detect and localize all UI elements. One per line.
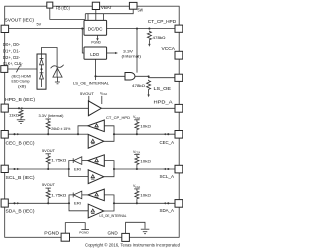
- wire gate output: [135, 76, 175, 77]
- resistor SCL B pull-up: [46, 155, 50, 164]
- resistor 478k pull-down: [147, 80, 151, 90]
- svg-text:10kΩ: 10kΩ: [140, 125, 151, 129]
- svg-text:PGND: PGND: [91, 41, 101, 45]
- svg-text:LDO: LDO: [90, 52, 99, 57]
- pin SDA_A: [175, 200, 183, 208]
- node junction gate supply: [136, 28, 138, 30]
- node dot CEC A: [167, 133, 169, 135]
- wire HPD output: [101, 107, 175, 109]
- wire DC/DC PGND stub: [97, 35, 99, 38]
- node junction HPD pulldown: [18, 107, 20, 109]
- node dot SDA B: [13, 202, 15, 204]
- svg-text:CT_CP_HPD: CT_CP_HPD: [106, 116, 130, 120]
- pin FB (IEC): [47, 2, 53, 8]
- node hysteresis CEC upper: [95, 124, 98, 127]
- wire CEC A line: [114, 133, 175, 135]
- node junction LS_OE: [148, 75, 150, 77]
- node arrow SDA A: [163, 202, 166, 204]
- wire SDA A upper: [104, 195, 114, 203]
- wire SDA up branch: [69, 195, 73, 203]
- node dot SCL A: [167, 168, 169, 170]
- wire CEC into lower: [78, 133, 88, 135]
- svg-text:CCA: CCA: [135, 152, 140, 155]
- diode ERI SCL: [72, 158, 74, 163]
- resistor 11k pulldown: [19, 109, 23, 118]
- gate LS_OE: [125, 73, 135, 81]
- resistor 478k pull-up: [147, 31, 151, 41]
- node junction SDA A: [113, 202, 115, 204]
- op-amp SDA B-to-A: [88, 204, 104, 218]
- node junction 10k SCL: [136, 168, 138, 170]
- svg-text:ERI: ERI: [74, 167, 81, 171]
- node junction 478k: [148, 28, 150, 30]
- node junction 10k CEC: [136, 133, 138, 135]
- ground GND: [141, 228, 150, 230]
- wire VBAT to DC/DC: [95, 10, 97, 21]
- node clamp center junction: [40, 68, 42, 70]
- svg-text:10kΩ: 10kΩ: [140, 194, 151, 198]
- wire HPD_B line: [8, 107, 88, 109]
- svg-text:LS_OE_INTERNAL: LS_OE_INTERNAL: [73, 82, 109, 86]
- svg-text:HPD_B (IEC): HPD_B (IEC): [5, 97, 35, 102]
- svg-text:11kΩ: 11kΩ: [9, 113, 19, 117]
- node dot CEC B: [13, 133, 15, 135]
- node hysteresis SCL lower: [91, 175, 94, 178]
- svg-text:VCCA: VCCA: [162, 46, 176, 51]
- svg-text:D2+, D2-: D2+, D2-: [3, 55, 20, 60]
- wire 5V rail left: [9, 28, 84, 30]
- svg-text:GND: GND: [108, 230, 119, 235]
- svg-text:5VOUT: 5VOUT: [42, 183, 56, 187]
- svg-text:CCA: CCA: [135, 186, 140, 189]
- svg-text:10kΩ: 10kΩ: [140, 159, 151, 163]
- op-amp SCL B-to-A: [88, 170, 104, 184]
- svg-text:LS_OE_INTERNAL: LS_OE_INTERNAL: [100, 214, 127, 218]
- wire TMDS bus: [8, 68, 37, 70]
- node junction SCL A: [113, 168, 115, 170]
- wire SDA A lower: [104, 203, 114, 211]
- wire drop2 into DC/DC: [103, 14, 105, 21]
- svg-text:CT_CP_HPD: CT_CP_HPD: [148, 19, 177, 24]
- node arrow CEC A: [163, 133, 166, 135]
- svg-text:CEC_B (IEC): CEC_B (IEC): [6, 141, 35, 146]
- op-amp HPD buffer: [88, 101, 101, 116]
- svg-text:CEC_A: CEC_A: [160, 140, 175, 145]
- wire CEC A lower: [104, 134, 114, 141]
- svg-text:DC/DC: DC/DC: [88, 27, 103, 32]
- svg-text:HPD_A: HPD_A: [154, 100, 174, 105]
- pin SDA_B (IEC): [1, 199, 8, 207]
- wire CEC B line: [8, 133, 78, 135]
- node dot SDA A: [167, 202, 169, 204]
- svg-text:1.75kΩ: 1.75kΩ: [51, 193, 67, 197]
- op-amp SDA A-to-B: [88, 189, 104, 201]
- node hysteresis SCL upper: [95, 159, 98, 162]
- resistor 10k SDA: [135, 190, 139, 199]
- ground PGND: [81, 229, 89, 231]
- svg-text:FB (IEC): FB (IEC): [56, 6, 70, 11]
- node hysteresis SDA lower: [91, 209, 94, 212]
- block DC/DC: [84, 20, 107, 35]
- wire 5V rail right: [107, 28, 175, 30]
- diode ERI SDA: [72, 193, 74, 198]
- svg-text:D0+, D0-: D0+, D0-: [3, 42, 20, 47]
- svg-text:3.3V (Internal): 3.3V (Internal): [39, 114, 64, 118]
- wire SCL into lower: [69, 169, 88, 177]
- block LDO: [84, 47, 107, 59]
- wire LDO to gate: [96, 59, 126, 76]
- svg-text:PGND: PGND: [79, 231, 88, 235]
- resistor CEC B pull-up: [46, 120, 50, 129]
- resistor 10k CEC: [135, 121, 139, 130]
- wire PGND to ground: [65, 223, 85, 234]
- wire clamp top to TVS: [42, 48, 58, 67]
- wire LDO output arrow: [107, 52, 116, 54]
- node junction CEC pull-up: [47, 133, 49, 135]
- svg-text:Copyright © 2016, Texas Instru: Copyright © 2016, Texas Instruments Inco…: [85, 243, 181, 248]
- pin SW: [129, 2, 137, 9]
- wire SCL A line: [114, 168, 175, 170]
- node arrow SCL B: [17, 168, 20, 170]
- border frame: [5, 6, 180, 237]
- svg-text:8: 8: [20, 64, 22, 68]
- resistor 10k SCL: [135, 156, 139, 165]
- svg-text:1.75kΩ: 1.75kΩ: [51, 158, 67, 162]
- node junction SCL split: [68, 168, 70, 170]
- wire SDA B line: [8, 202, 69, 204]
- diode clamp upper: [41, 54, 43, 59]
- node hysteresis SDA upper: [95, 193, 98, 196]
- wire SDA A line: [114, 202, 175, 204]
- svg-text:SDA_B (IEC): SDA_B (IEC): [6, 209, 35, 214]
- svg-text:SCL_B (IEC): SCL_B (IEC): [6, 175, 35, 180]
- pin CEC_A: [175, 131, 183, 139]
- ground HPD pulldown: [20, 118, 22, 120]
- svg-text:5VOUT (IEC): 5VOUT (IEC): [5, 17, 34, 22]
- wire GND to ground: [126, 222, 145, 233]
- wire SDA into lower: [69, 203, 88, 211]
- node junction 10k SDA: [136, 202, 138, 204]
- node arrow HPD: [21, 107, 24, 109]
- pin TMDS: [1, 66, 8, 73]
- wire SCL up branch: [69, 161, 73, 169]
- node arrow CEC B: [17, 133, 20, 135]
- svg-text:CCA: CCA: [135, 117, 140, 120]
- diode clamp lower: [40, 72, 44, 74]
- block ESD clamp array: [37, 54, 46, 89]
- pin SCL_A: [175, 165, 183, 173]
- svg-text:(x8): (x8): [18, 84, 26, 88]
- svg-text:478kΩ: 478kΩ: [132, 84, 145, 88]
- node junction CEC A: [113, 133, 115, 135]
- node junction LDO tap: [81, 28, 83, 30]
- pin VBAT: [92, 2, 99, 9]
- node bus slash: [16, 66, 19, 72]
- node junction SDA split: [68, 202, 70, 204]
- op-amp CEC B-to-A: [88, 134, 104, 148]
- node junction SDA pull-up: [47, 202, 49, 204]
- pin LS_OE: [175, 74, 183, 81]
- svg-text:5VOUT: 5VOUT: [80, 92, 95, 96]
- svg-text:26kΩ ± 15%: 26kΩ ± 15%: [51, 127, 70, 131]
- wire 5V to gate top: [136, 29, 138, 73]
- svg-text:SDA_A: SDA_A: [160, 208, 175, 213]
- node arrow SCL A: [163, 168, 166, 170]
- wire drop1 into DC/DC: [87, 14, 89, 21]
- svg-text:VBAT: VBAT: [101, 5, 112, 10]
- op-amp SCL A-to-B: [88, 155, 104, 167]
- wire SCL B line: [8, 168, 69, 170]
- svg-text:478kΩ: 478kΩ: [153, 36, 166, 40]
- wire SCL A upper: [104, 161, 114, 169]
- svg-text:CCA: CCA: [102, 93, 107, 96]
- wire SW to DC/DC: [85, 9, 133, 14]
- svg-text:3.3V: 3.3V: [123, 49, 134, 53]
- svg-text:LS_OE: LS_OE: [154, 86, 172, 91]
- svg-text:5VOUT: 5VOUT: [42, 149, 56, 153]
- node hysteresis CEC lower: [91, 139, 94, 142]
- node junction LS_OE_INTERNAL: [94, 75, 96, 77]
- svg-text:5V: 5V: [37, 23, 42, 27]
- wire FB to DC/DC: [50, 8, 86, 19]
- wire CEC A upper: [104, 126, 114, 134]
- svg-text:ESD Clamp: ESD Clamp: [12, 80, 30, 84]
- svg-text:(IEC) HDMI: (IEC) HDMI: [12, 75, 32, 79]
- op-amp CEC A-to-B: [88, 120, 104, 132]
- node dot SCL B: [13, 168, 15, 170]
- svg-text:SW: SW: [138, 7, 144, 12]
- svg-text:SCL_A: SCL_A: [160, 174, 175, 179]
- pin CEC_B (IEC): [1, 131, 8, 139]
- wire SCL A lower: [104, 169, 114, 177]
- node junction CEC split: [77, 133, 79, 135]
- svg-text:D1+, D1-: D1+, D1-: [3, 48, 20, 53]
- svg-text:PGND: PGND: [44, 230, 59, 235]
- wire CEC up branch: [78, 126, 88, 134]
- wire LDO input: [82, 29, 84, 53]
- node arrow SDA B: [17, 202, 20, 204]
- resistor SDA B pull-up: [46, 190, 50, 199]
- svg-text:(Internal): (Internal): [122, 55, 142, 59]
- pin SCL_B (IEC): [1, 165, 8, 172]
- TVS clamp: [51, 65, 64, 68]
- node junction SCL pull-up: [47, 168, 49, 170]
- svg-text:ERI: ERI: [74, 202, 81, 206]
